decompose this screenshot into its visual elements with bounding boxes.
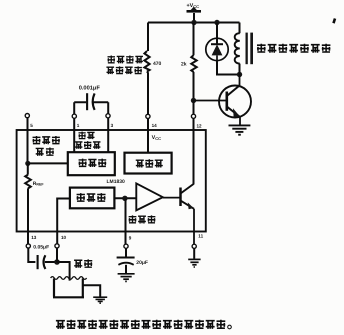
svg-text:470: 470	[153, 61, 162, 67]
tank water line	[51, 277, 87, 280]
Vcc power terminal	[187, 7, 202, 23]
label 调节器 (regulator)	[136, 159, 163, 167]
svg-text:9: 9	[129, 236, 132, 241]
label 振荡器 (oscillator)	[33, 136, 60, 144]
op-amp A1 (amplifier triangle)	[136, 183, 163, 210]
pin 3 terminal	[106, 114, 110, 118]
transistor Q1 (power, in circle)	[194, 75, 252, 126]
svg-text:20μF: 20μF	[136, 260, 148, 266]
pin 1 terminal	[72, 114, 76, 118]
pin 12 terminal	[191, 114, 195, 118]
wire probe electrode	[57, 262, 70, 281]
oscillator block	[68, 152, 115, 175]
ground below Q1	[229, 125, 251, 134]
svg-text:14: 14	[152, 123, 158, 128]
tick mark top right	[334, 19, 336, 24]
node diode top junction	[214, 20, 219, 25]
wire detector output to amplifier	[114, 197, 136, 199]
detector block	[70, 188, 115, 209]
wire pin 12 to internal collector	[193, 118, 195, 184]
relay core bars	[246, 33, 254, 65]
svg-text:3: 3	[111, 123, 114, 128]
node probe junction	[54, 259, 60, 265]
IC U1 LM1830 outline	[17, 130, 206, 232]
label 振荡器 in block	[79, 159, 107, 167]
wire pin 10 to probe node	[56, 248, 58, 262]
svg-text:5: 5	[30, 123, 33, 128]
node base junction	[191, 98, 196, 103]
wire coil bottom to collector node	[239, 64, 241, 75]
svg-text:13: 13	[31, 235, 37, 240]
capacitor C1 0.001uF plates	[87, 93, 95, 110]
svg-text:RREF: RREF	[33, 181, 45, 187]
wire pin 9 to C3	[125, 248, 127, 256]
pin 13 terminal	[26, 244, 30, 248]
regulator block	[125, 153, 172, 174]
node filter junction	[122, 196, 127, 201]
label 过流过载 (overcurrent overload)	[108, 56, 143, 64]
wire junction to diode D1	[216, 23, 218, 45]
capacitor C2 0.05uF plates	[38, 255, 46, 269]
ground pin 11	[188, 259, 200, 267]
wire C3 to ground	[125, 265, 127, 274]
wire base node to pin 12	[193, 101, 195, 115]
wire pin 1 into oscillator	[73, 118, 75, 152]
ground tank	[93, 297, 107, 303]
wire 2k to base node	[193, 72, 195, 101]
label 继电器或螺线管 (relay or solenoid)	[257, 44, 330, 53]
label 保护电阻 (protection resistor)	[106, 66, 141, 74]
pin 11 terminal	[192, 244, 196, 248]
caption 输出适宜于驱动油泵或打开泄油阀等。	[56, 320, 231, 329]
svg-text:12: 12	[197, 124, 203, 129]
wire C2 to probe node	[45, 261, 57, 263]
svg-text:LM1830: LM1830	[107, 179, 126, 185]
pin 14 terminal	[146, 114, 150, 118]
wire pin 13 to C2	[28, 248, 35, 262]
wire pin 11 to ground	[193, 248, 195, 258]
capacitor C1 0.001uF leads	[74, 102, 108, 114]
wire pin 3 into oscillator	[107, 118, 109, 152]
transistor Q2 (internal)	[163, 184, 194, 244]
label 电容器 (capacitor)	[75, 141, 101, 149]
label 滤波器 (filter)	[129, 215, 156, 223]
resistor 470 (overload protection)	[144, 51, 149, 72]
wire pin 14 to regulator	[147, 119, 149, 153]
svg-text:10: 10	[61, 235, 67, 240]
wire Vcc rail to 470 resistor	[147, 23, 149, 52]
label 检测器 (detector)	[77, 193, 106, 202]
diode D1 (flyback, in circle)	[206, 38, 228, 60]
ground C3	[118, 274, 135, 282]
svg-text:VCC: VCC	[152, 135, 161, 141]
wire Vcc junction to resistor 2k	[193, 23, 195, 56]
node oscillator output junction	[25, 161, 30, 166]
node collector junction	[237, 72, 242, 77]
wire 470 to pin 14	[147, 72, 148, 115]
pin 5 terminal	[25, 114, 29, 118]
wire rail to relay coil	[239, 23, 241, 34]
tank beaker	[53, 279, 84, 298]
relay coil L1	[235, 33, 240, 63]
pin 10 terminal	[55, 244, 59, 248]
wire filter node to pin 9	[125, 198, 127, 244]
label 探头 (probe)	[74, 259, 92, 267]
wire oscillator output	[28, 162, 68, 164]
node Vcc junction	[191, 20, 196, 25]
wire pin 5 to oscillator output node	[27, 118, 29, 164]
svg-text:0.001μF: 0.001μF	[79, 86, 101, 92]
resistor R_REF	[25, 163, 31, 244]
wire diode bottom to collector node	[217, 61, 240, 75]
resistor 2k	[191, 55, 196, 72]
svg-text:11: 11	[198, 234, 203, 239]
capacitor C3 20uF plates	[117, 258, 135, 265]
svg-text:+VCC: +VCC	[187, 3, 200, 9]
pin 9 terminal	[124, 244, 128, 248]
label 定时 (timing)	[78, 132, 94, 140]
wire tank to ground	[83, 285, 100, 296]
label 输出 (output)	[36, 148, 54, 156]
wire detector input stub to pin 10	[57, 199, 70, 245]
svg-text:0.05μF: 0.05μF	[33, 244, 49, 250]
wire top supply rail	[148, 22, 240, 24]
svg-text:1: 1	[77, 123, 80, 128]
svg-text:2k: 2k	[181, 62, 187, 68]
